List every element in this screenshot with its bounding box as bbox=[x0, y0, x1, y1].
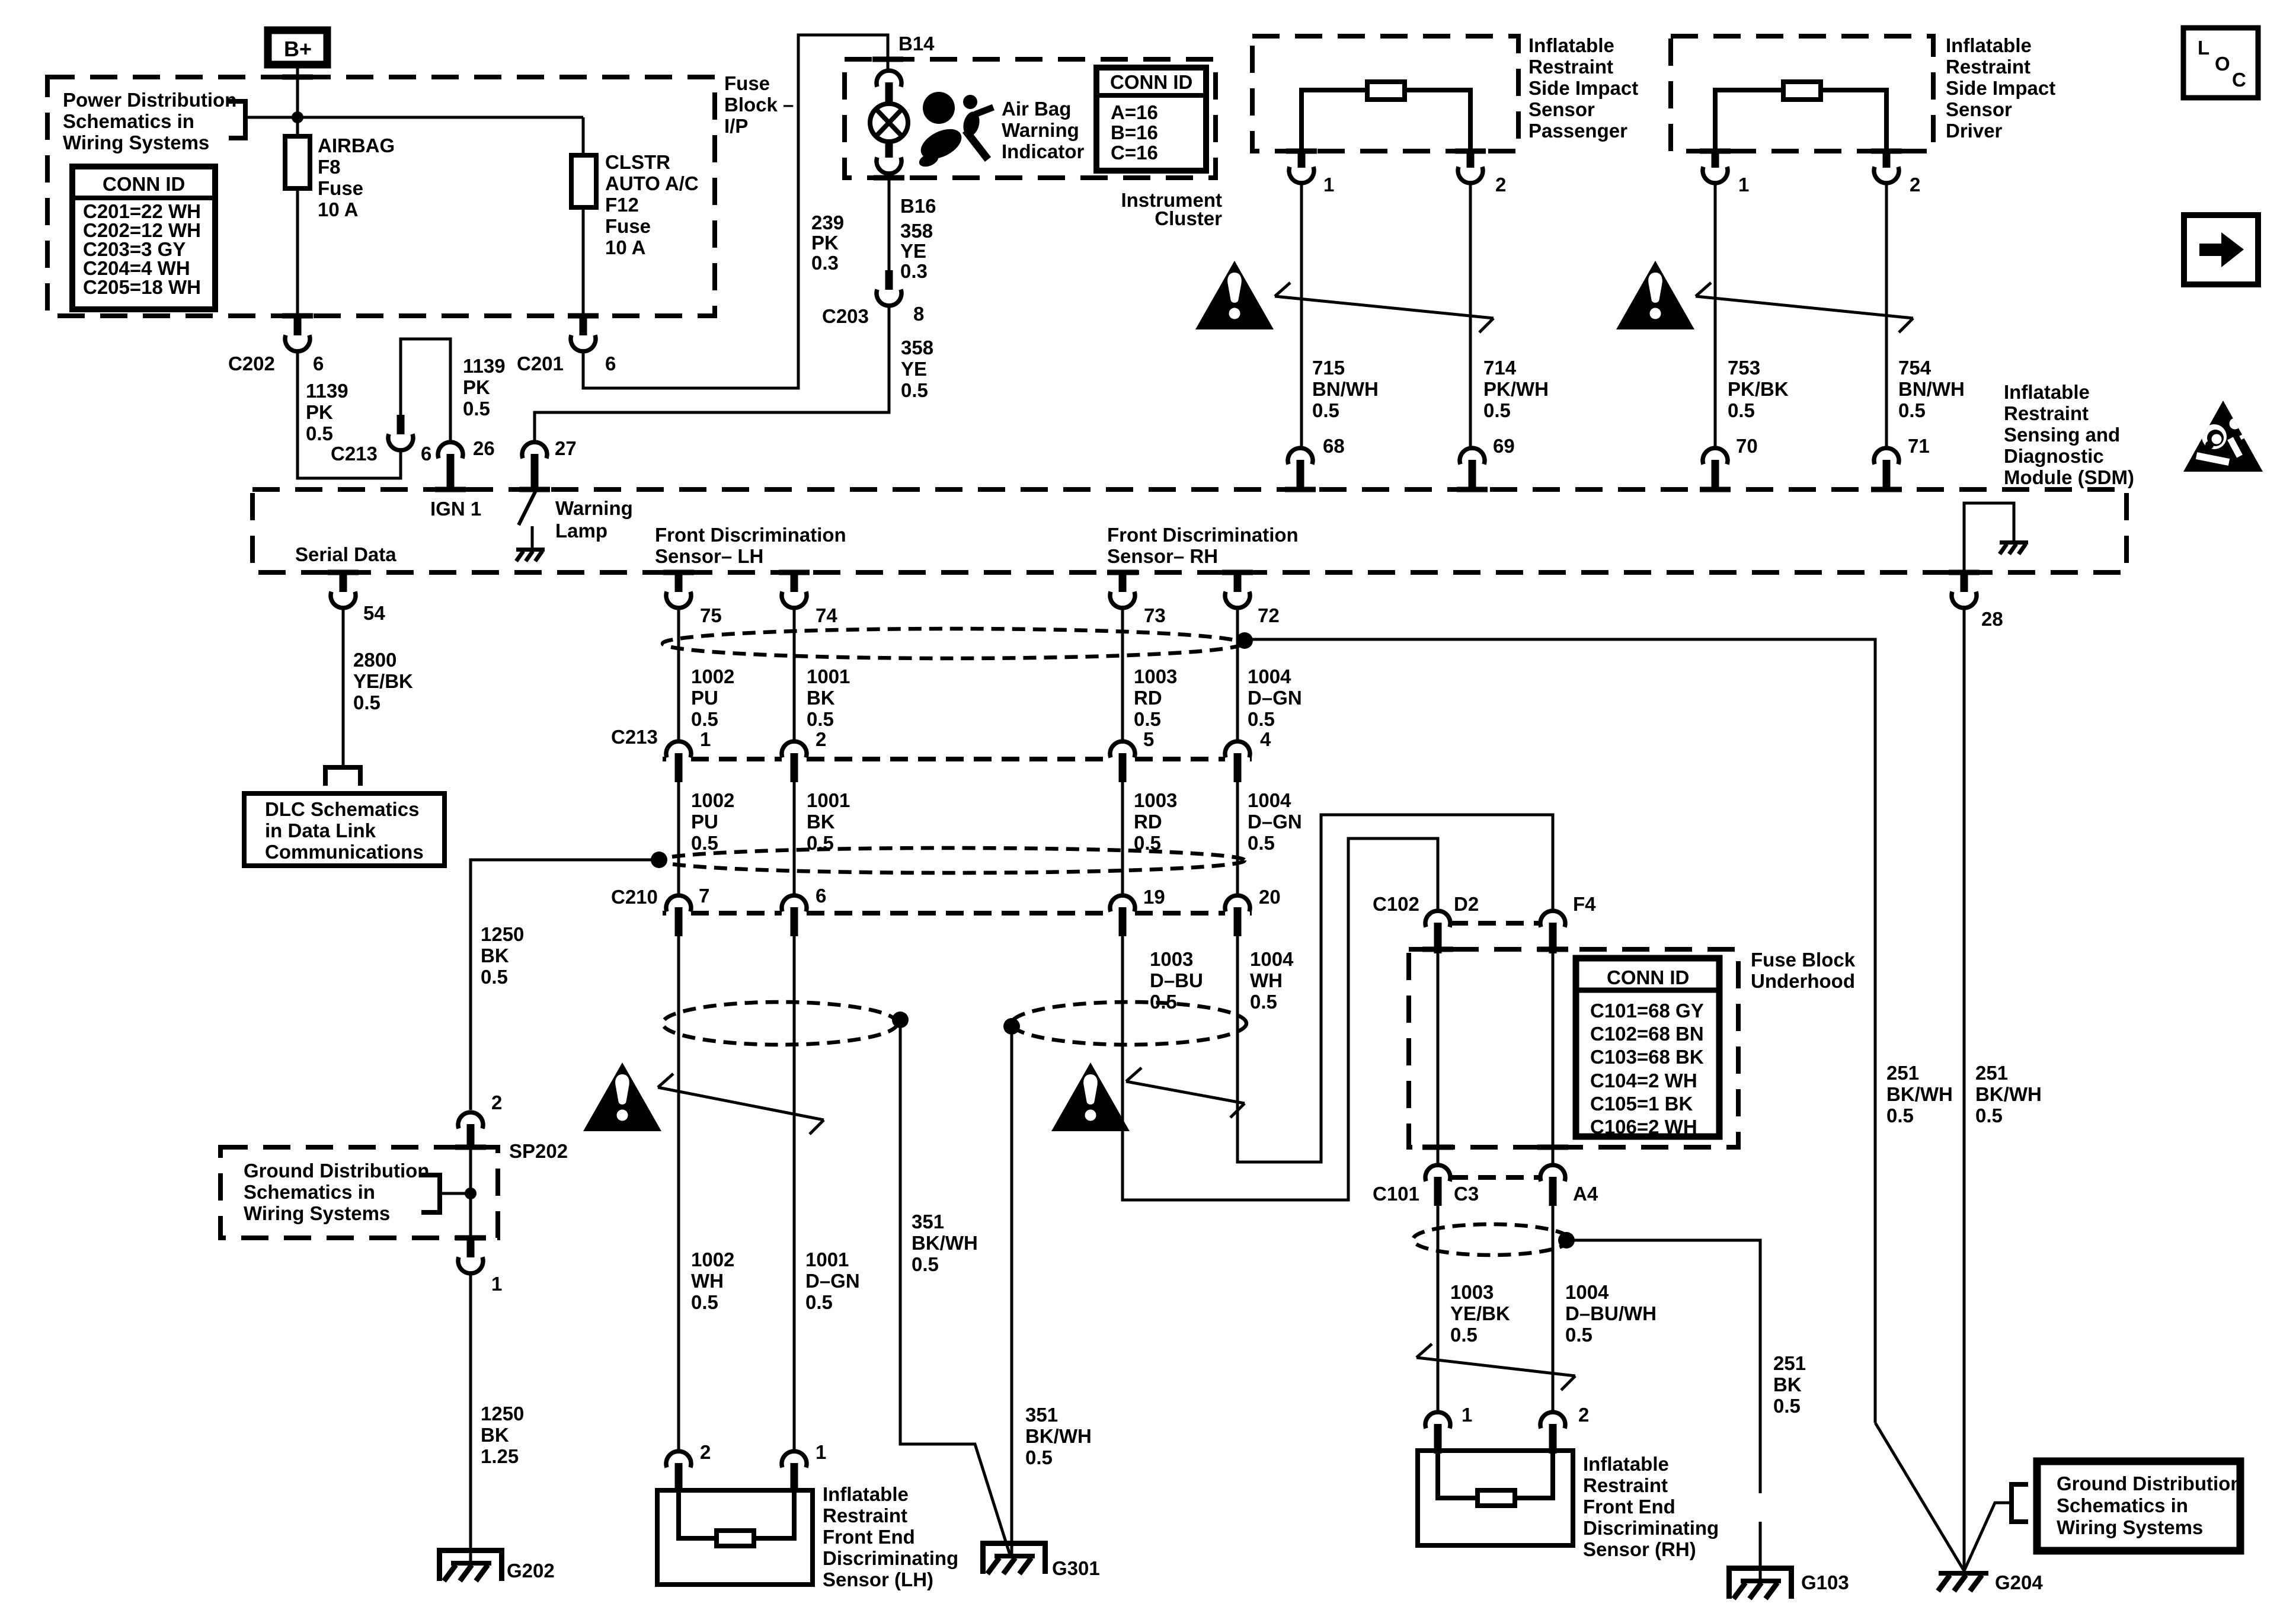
svg-text:239: 239 bbox=[811, 212, 844, 233]
label 251 BK 0.5 bbox=[1773, 1352, 1806, 1417]
svg-text:Side Impact: Side Impact bbox=[1946, 77, 2055, 99]
svg-text:C105=1 BK: C105=1 BK bbox=[1590, 1093, 1693, 1115]
connector row C210 bbox=[611, 885, 1281, 908]
CONN ID table (underhood) bbox=[1576, 958, 1719, 1138]
svg-text:74: 74 bbox=[816, 604, 837, 626]
shield drain node row 3 left bbox=[892, 1012, 909, 1028]
svg-text:0.5: 0.5 bbox=[1248, 832, 1275, 854]
svg-text:CONN ID: CONN ID bbox=[1110, 71, 1192, 93]
C210 pin 19 clip bbox=[1110, 895, 1135, 936]
shield drain wire 351 BK/WH (right) bbox=[1011, 1026, 1013, 1557]
svg-text:1001: 1001 bbox=[807, 665, 850, 687]
svg-text:0.5: 0.5 bbox=[1773, 1395, 1801, 1417]
C213 pin 2 clip bbox=[782, 741, 807, 782]
svg-text:O: O bbox=[2215, 53, 2230, 75]
wire 2800 YE/BK from pin 54 bbox=[342, 608, 345, 766]
svg-text:Indicator: Indicator bbox=[1002, 140, 1085, 162]
svg-text:BK: BK bbox=[807, 811, 835, 833]
svg-text:351: 351 bbox=[1025, 1404, 1058, 1426]
C102 pin F4 clip bbox=[1540, 911, 1565, 953]
passenger sensor internal resistor bbox=[1302, 82, 1470, 151]
leader slash through wires 1003/1004 bbox=[1126, 1068, 1245, 1118]
label 358 YE 0.5 bbox=[901, 337, 933, 401]
svg-text:72: 72 bbox=[1258, 604, 1280, 626]
note: Instrument Cluster bbox=[1121, 189, 1222, 229]
internal mini ground (pin 28) bbox=[2000, 540, 2028, 554]
svg-text:BK/WH: BK/WH bbox=[912, 1232, 978, 1254]
labels 1002 WH 0.5 / 1001 D-GN 0.5 (lower) bbox=[691, 1249, 734, 1313]
svg-text:1139: 1139 bbox=[306, 380, 348, 402]
svg-text:0.5: 0.5 bbox=[807, 832, 834, 854]
wire loop C213-6 up and over to SDM pin 26 bbox=[401, 339, 450, 441]
svg-text:DLC Schematics: DLC Schematics bbox=[265, 798, 419, 820]
svg-text:0.5: 0.5 bbox=[1134, 832, 1161, 854]
svg-text:YE: YE bbox=[900, 240, 926, 262]
svg-text:0.5: 0.5 bbox=[463, 398, 490, 420]
passenger sensor dashed box bbox=[1252, 36, 1518, 151]
svg-text:0.5: 0.5 bbox=[912, 1253, 939, 1275]
fuse F12 CLSTR AUTO A/C bbox=[571, 151, 699, 258]
leader slash through wires 1002/1001 bbox=[658, 1074, 824, 1134]
C101 pin A4 clip bbox=[1540, 1165, 1565, 1206]
svg-text:4: 4 bbox=[1260, 728, 1271, 750]
svg-text:1250: 1250 bbox=[481, 923, 524, 945]
svg-text:1: 1 bbox=[816, 1441, 826, 1463]
svg-text:2: 2 bbox=[491, 1092, 502, 1113]
SDM pin 72 clip bbox=[1225, 572, 1280, 626]
svg-text:1139: 1139 bbox=[463, 355, 506, 377]
svg-text:PK/BK: PK/BK bbox=[1728, 378, 1789, 400]
svg-text:C202: C202 bbox=[228, 353, 275, 375]
svg-text:2: 2 bbox=[1910, 174, 1920, 196]
SP202 splice pin 2 clip bbox=[458, 1092, 502, 1148]
svg-text:1250: 1250 bbox=[481, 1403, 524, 1425]
C101 dashed line bbox=[1450, 1175, 1540, 1180]
svg-text:0.5: 0.5 bbox=[1025, 1446, 1053, 1468]
SDM pin 54 clip bbox=[331, 572, 385, 624]
svg-text:YE/BK: YE/BK bbox=[353, 670, 413, 692]
shield drain node row 3 right bbox=[1003, 1018, 1020, 1035]
C102 pin D2 clip bbox=[1425, 911, 1450, 953]
svg-text:1.25: 1.25 bbox=[481, 1445, 519, 1467]
svg-text:251: 251 bbox=[1975, 1062, 2008, 1084]
svg-text:1004: 1004 bbox=[1565, 1281, 1609, 1303]
wire bracket to splice node bbox=[440, 1192, 471, 1195]
warning triangle (RH front wires) bbox=[1051, 1062, 1130, 1131]
fuse F8 AIRBAG bbox=[285, 135, 395, 220]
driver sensor pin 2 clip bbox=[1874, 150, 1920, 196]
svg-text:0.5: 0.5 bbox=[691, 832, 718, 854]
label 1139 PK 0.5 (left) bbox=[306, 380, 348, 444]
C210 pin 20 clip bbox=[1225, 895, 1250, 936]
note: Inflatable Restraint Side Impact Sensor Driver bbox=[1946, 34, 2055, 142]
svg-text:SP202: SP202 bbox=[509, 1140, 568, 1162]
fuse block underhood dashed box bbox=[1409, 949, 1738, 1147]
warning lamp switch contact to ground bbox=[531, 526, 534, 548]
wire 753 PK/BK bbox=[1714, 183, 1717, 448]
svg-text:Schematics in: Schematics in bbox=[2057, 1494, 2188, 1516]
svg-text:Underhood: Underhood bbox=[1751, 970, 1855, 992]
wire 714 PK/WH bbox=[1469, 183, 1472, 448]
C213 pin 1 clip bbox=[666, 741, 691, 782]
svg-text:Sensor: Sensor bbox=[1946, 98, 2012, 120]
svg-text:Sensing and: Sensing and bbox=[2004, 424, 2120, 446]
svg-text:2: 2 bbox=[700, 1441, 711, 1463]
shield ellipse row 2 bbox=[659, 848, 1245, 873]
RH sensor internal squib bbox=[1438, 1451, 1553, 1506]
label 1250 BK 0.5 bbox=[481, 923, 524, 988]
svg-text:Sensor– LH: Sensor– LH bbox=[655, 545, 763, 567]
svg-text:0.5: 0.5 bbox=[1975, 1105, 2003, 1126]
note: Ground Distribution Schematics in Wiring Systems (G204) bbox=[2037, 1461, 2242, 1551]
svg-text:71: 71 bbox=[1908, 435, 1930, 457]
svg-text:Passenger: Passenger bbox=[1528, 120, 1627, 142]
wire below F8 to box edge bbox=[296, 188, 299, 316]
svg-text:7: 7 bbox=[699, 885, 709, 907]
connector row C101 bbox=[1373, 1183, 1598, 1205]
svg-text:D2: D2 bbox=[1454, 893, 1479, 915]
splice node SP202 bbox=[465, 1188, 477, 1199]
LH sensor internal squib bbox=[679, 1490, 794, 1546]
LH sensor pin 1 clip bbox=[782, 1441, 826, 1493]
svg-text:BK: BK bbox=[481, 945, 509, 966]
svg-text:0.5: 0.5 bbox=[481, 966, 508, 988]
ground G204 bbox=[1938, 1571, 2043, 1593]
svg-text:1: 1 bbox=[1738, 174, 1749, 196]
SDM airbag warning triangle icon bbox=[2183, 401, 2263, 472]
wire 1002 PU (pin 75 to C213-1) bbox=[677, 608, 680, 741]
bracket to ground distribution note bbox=[421, 1175, 440, 1212]
RH sensor pin 1 clip bbox=[1425, 1404, 1472, 1454]
driver sensor internal resistor bbox=[1715, 82, 1886, 151]
air bag icon (head + airbag) bbox=[916, 92, 993, 169]
svg-text:WH: WH bbox=[1250, 969, 1283, 991]
svg-text:6: 6 bbox=[421, 443, 431, 465]
svg-text:1004: 1004 bbox=[1248, 789, 1291, 811]
svg-text:G301: G301 bbox=[1052, 1557, 1100, 1579]
C210 pin 7 clip bbox=[666, 895, 691, 936]
svg-text:Inflatable: Inflatable bbox=[2004, 381, 2090, 403]
svg-text:Front Discrimination: Front Discrimination bbox=[1107, 524, 1299, 546]
svg-text:F4: F4 bbox=[1573, 893, 1596, 915]
labels 1002 PU 0.5 / 1001 BK 0.5 / 1003 RD 0.5 / 1004 D-GN 0.5 (second row) bbox=[691, 789, 734, 854]
svg-text:6: 6 bbox=[816, 885, 826, 907]
SDM pin 75 clip bbox=[666, 572, 722, 626]
svg-text:G204: G204 bbox=[1995, 1571, 2043, 1593]
passenger sensor pin 2 clip bbox=[1458, 150, 1506, 196]
svg-text:251: 251 bbox=[1886, 1062, 1919, 1084]
svg-text:PK/WH: PK/WH bbox=[1483, 378, 1549, 400]
svg-text:C103=68 BK: C103=68 BK bbox=[1590, 1046, 1704, 1068]
svg-text:I/P: I/P bbox=[724, 115, 748, 137]
svg-text:Block –: Block – bbox=[724, 94, 794, 116]
svg-text:A4: A4 bbox=[1573, 1183, 1598, 1205]
wire 358 YE 0.3 below cluster bbox=[888, 174, 891, 270]
svg-text:0.5: 0.5 bbox=[805, 1291, 833, 1313]
note: Ground Distribution Schematics in Wiring Systems (SP202) bbox=[244, 1160, 429, 1224]
svg-text:BK/WH: BK/WH bbox=[1975, 1083, 2042, 1105]
svg-text:28: 28 bbox=[1981, 608, 2003, 630]
svg-text:Cluster: Cluster bbox=[1155, 207, 1222, 229]
svg-text:Front Discrimination: Front Discrimination bbox=[655, 524, 846, 546]
svg-text:1004: 1004 bbox=[1248, 665, 1291, 687]
svg-text:715: 715 bbox=[1312, 357, 1345, 379]
leader slash through wires 753/754 bbox=[1696, 283, 1913, 332]
svg-text:26: 26 bbox=[473, 437, 495, 459]
svg-text:1: 1 bbox=[1462, 1404, 1472, 1426]
svg-text:C203: C203 bbox=[822, 305, 869, 327]
svg-text:73: 73 bbox=[1144, 604, 1166, 626]
C210 dashed line bbox=[663, 911, 1252, 916]
svg-text:BN/WH: BN/WH bbox=[1898, 378, 1965, 400]
label 715 BN/WH 0.5 bbox=[1312, 357, 1379, 421]
svg-text:0.5: 0.5 bbox=[1134, 708, 1161, 730]
wire 715 BN/WH bbox=[1300, 183, 1303, 448]
SDM dashed box bbox=[252, 489, 2126, 572]
labels 1003 YE/BK 0.5 / 1004 D-BU/WH 0.5 bbox=[1450, 1281, 1510, 1346]
svg-text:1002: 1002 bbox=[691, 665, 734, 687]
svg-text:B16: B16 bbox=[900, 195, 936, 217]
svg-text:Wiring Systems: Wiring Systems bbox=[244, 1202, 390, 1224]
svg-text:Serial Data: Serial Data bbox=[295, 543, 396, 565]
svg-text:1: 1 bbox=[491, 1273, 502, 1295]
svg-text:Ground Distribution: Ground Distribution bbox=[244, 1160, 429, 1182]
svg-text:Wiring Systems: Wiring Systems bbox=[2057, 1516, 2203, 1538]
svg-text:C201: C201 bbox=[517, 353, 564, 375]
LH sensor pin 2 clip bbox=[666, 1441, 711, 1493]
SDM pin 71 clip bbox=[1874, 435, 1930, 489]
svg-text:CONN ID: CONN ID bbox=[103, 173, 185, 195]
svg-text:1002: 1002 bbox=[691, 1249, 734, 1270]
svg-text:in Data Link: in Data Link bbox=[265, 820, 376, 841]
svg-text:5: 5 bbox=[1143, 728, 1154, 750]
RH sensor pin 2 clip bbox=[1540, 1404, 1589, 1454]
SDM pin 69 clip bbox=[1460, 435, 1515, 489]
ground G103 bbox=[1726, 1566, 1849, 1599]
svg-text:Warning: Warning bbox=[1002, 119, 1079, 141]
SDM pin 28 internal ground trace bbox=[1964, 503, 2014, 572]
svg-text:Diagnostic: Diagnostic bbox=[2004, 445, 2104, 467]
svg-text:1: 1 bbox=[1323, 174, 1334, 196]
label 754 BN/WH 0.5 bbox=[1898, 357, 1965, 421]
svg-text:Inflatable: Inflatable bbox=[823, 1483, 909, 1505]
passenger sensor pin 1 clip bbox=[1289, 150, 1334, 196]
svg-text:Restraint: Restraint bbox=[1583, 1474, 1668, 1496]
label 351 BK/WH 0.5 (upper) bbox=[912, 1211, 978, 1275]
bracket to ground distribution note (G204) bbox=[2012, 1484, 2028, 1522]
wire D2 to C3 inside fuse block bbox=[1437, 952, 1440, 1164]
svg-text:BN/WH: BN/WH bbox=[1312, 378, 1379, 400]
svg-text:A=16: A=16 bbox=[1111, 101, 1158, 123]
svg-text:10 A: 10 A bbox=[605, 236, 645, 258]
svg-text:1003: 1003 bbox=[1134, 789, 1177, 811]
svg-text:BK: BK bbox=[807, 687, 835, 709]
svg-text:CLSTR: CLSTR bbox=[605, 151, 670, 173]
label 2800 YE/BK 0.5 bbox=[353, 649, 413, 713]
svg-text:69: 69 bbox=[1493, 435, 1515, 457]
wire B+ vertical bbox=[296, 68, 299, 136]
bracket to Power Distribution note bbox=[229, 101, 245, 138]
wires C213 to C210 bbox=[677, 782, 680, 895]
label 714 PK/WH 0.5 bbox=[1483, 357, 1549, 421]
warning triangle (LH front wires) bbox=[583, 1062, 661, 1131]
svg-text:BK/WH: BK/WH bbox=[1886, 1083, 1953, 1105]
label 351 BK/WH 0.5 (lower) bbox=[1025, 1404, 1092, 1468]
svg-text:C101: C101 bbox=[1373, 1183, 1419, 1205]
svg-text:0.5: 0.5 bbox=[1150, 991, 1177, 1013]
arrow reference box bbox=[2184, 215, 2258, 284]
shield ellipse row 1 bbox=[663, 629, 1242, 658]
wire 1003 YE/BK (C3 to RH sensor 1) bbox=[1437, 1206, 1440, 1411]
svg-text:RD: RD bbox=[1134, 811, 1162, 833]
SDM pin 73 clip bbox=[1110, 572, 1166, 626]
svg-text:Fuse: Fuse bbox=[318, 177, 363, 199]
SDM pin 26 clip bbox=[438, 437, 495, 489]
svg-text:C205=18 WH: C205=18 WH bbox=[83, 276, 201, 298]
svg-text:2: 2 bbox=[1495, 174, 1506, 196]
svg-text:B14: B14 bbox=[898, 33, 935, 55]
svg-text:753: 753 bbox=[1728, 357, 1760, 379]
CONN ID table (body connectors) bbox=[72, 167, 215, 309]
svg-text:Schematics in: Schematics in bbox=[63, 110, 194, 132]
svg-text:BK: BK bbox=[1773, 1374, 1802, 1395]
driver sensor dashed box bbox=[1671, 36, 1933, 151]
dash ticks at wire/dashed-edge crossings bbox=[282, 57, 1980, 1241]
svg-text:Power Distribution: Power Distribution bbox=[63, 89, 236, 111]
svg-text:D–GN: D–GN bbox=[1248, 687, 1302, 709]
shield drain wire 251 BK to G103 bbox=[1566, 1240, 1760, 1580]
fuse block I/P dashed box bbox=[47, 77, 715, 316]
svg-text:1003: 1003 bbox=[1134, 665, 1177, 687]
svg-text:0.5: 0.5 bbox=[353, 692, 380, 713]
wire below F12 to box edge bbox=[582, 207, 585, 316]
label 239 PK 0.3 bbox=[811, 212, 844, 274]
svg-text:70: 70 bbox=[1736, 435, 1758, 457]
svg-text:PK: PK bbox=[306, 401, 333, 423]
connector C201 pin 6 bbox=[517, 316, 616, 375]
air bag warning indicator bulb bbox=[870, 104, 908, 142]
C101 pin C3 clip bbox=[1425, 1165, 1450, 1206]
svg-text:Fuse: Fuse bbox=[724, 72, 770, 94]
svg-text:75: 75 bbox=[700, 604, 722, 626]
svg-text:C104=2 WH: C104=2 WH bbox=[1590, 1070, 1697, 1092]
svg-text:C213: C213 bbox=[331, 443, 378, 465]
svg-text:Side Impact: Side Impact bbox=[1528, 77, 1638, 99]
svg-text:1004: 1004 bbox=[1250, 948, 1294, 970]
SDM pin 27 clip bbox=[522, 437, 577, 489]
SDM pin 68 clip bbox=[1288, 435, 1345, 489]
connector clip B16 bbox=[877, 140, 901, 174]
label 1250 BK 1.25 bbox=[481, 1403, 524, 1467]
node at B+ wire junction bbox=[292, 111, 303, 123]
svg-text:10 A: 10 A bbox=[318, 199, 358, 220]
svg-text:0.5: 0.5 bbox=[1898, 399, 1926, 421]
note: Fuse Block - I/P label bbox=[724, 72, 794, 137]
svg-text:YE: YE bbox=[901, 358, 927, 380]
wire 1004 WH (C210-20 down to F4 riser) bbox=[1237, 815, 1553, 1162]
svg-text:0.5: 0.5 bbox=[1886, 1105, 1914, 1126]
leader slash through wires 715/714 bbox=[1275, 283, 1494, 332]
svg-text:1001: 1001 bbox=[805, 1249, 849, 1270]
svg-text:Inflatable: Inflatable bbox=[1583, 1453, 1669, 1475]
internal mini ground (warning lamp) bbox=[516, 548, 545, 561]
connector C213 pin 6 (in-line) bbox=[331, 415, 431, 465]
note: Inflatable Restraint Front End Discriminating Sensor (LH) bbox=[823, 1483, 958, 1590]
svg-text:D–BU: D–BU bbox=[1150, 969, 1203, 991]
SDM pin 70 clip bbox=[1703, 435, 1758, 489]
svg-text:0.5: 0.5 bbox=[306, 422, 333, 444]
svg-text:C102: C102 bbox=[1373, 893, 1419, 915]
svg-text:0.5: 0.5 bbox=[1565, 1324, 1593, 1346]
wire 251 BK/WH diagonal to G204 bbox=[1875, 1423, 1964, 1571]
C213 pin 5 clip bbox=[1110, 741, 1135, 782]
svg-text:C3: C3 bbox=[1454, 1183, 1479, 1205]
svg-text:Restraint: Restraint bbox=[823, 1505, 907, 1526]
svg-text:D–GN: D–GN bbox=[1248, 811, 1302, 833]
svg-text:AIRBAG: AIRBAG bbox=[318, 135, 395, 156]
svg-text:AUTO A/C: AUTO A/C bbox=[605, 172, 699, 194]
svg-text:Fuse: Fuse bbox=[605, 215, 651, 237]
connector row C102 bbox=[1373, 893, 1596, 915]
shield ellipse row 3 left bbox=[663, 1002, 897, 1045]
shield drain node row 4 bbox=[1558, 1232, 1575, 1249]
svg-text:27: 27 bbox=[555, 437, 577, 459]
svg-text:IGN 1: IGN 1 bbox=[430, 498, 481, 520]
shield drain wire row 1 to right bbox=[1245, 639, 1875, 1423]
svg-text:C213: C213 bbox=[611, 726, 658, 748]
svg-text:Fuse Block: Fuse Block bbox=[1751, 949, 1856, 971]
svg-text:Air Bag: Air Bag bbox=[1002, 98, 1071, 120]
svg-text:2: 2 bbox=[1578, 1404, 1589, 1426]
svg-text:0.5: 0.5 bbox=[901, 379, 928, 401]
note: Fuse Block Underhood bbox=[1751, 949, 1856, 992]
wire 754 BN/WH bbox=[1885, 183, 1888, 448]
wire 1139 PK from C202 bbox=[298, 351, 401, 478]
svg-text:BK: BK bbox=[481, 1424, 509, 1446]
svg-text:6: 6 bbox=[313, 353, 324, 375]
svg-text:0.5: 0.5 bbox=[691, 708, 718, 730]
svg-text:F12: F12 bbox=[605, 194, 639, 216]
note: Inflatable Restraint Sensing and Diagnostic Module (SDM) bbox=[2004, 381, 2134, 488]
svg-text:Discriminating: Discriminating bbox=[823, 1547, 958, 1569]
wire 1003 D-BU (C210-19 down to D2 riser) bbox=[1123, 838, 1438, 1200]
svg-text:YE/BK: YE/BK bbox=[1450, 1302, 1510, 1324]
svg-text:251: 251 bbox=[1773, 1352, 1806, 1374]
svg-text:0.5: 0.5 bbox=[1450, 1324, 1478, 1346]
C213 dashed line bbox=[663, 757, 1252, 761]
connector C202 pin 6 bbox=[228, 316, 324, 375]
wire 1250 BK 1.25 to G202 bbox=[469, 1273, 472, 1564]
instrument cluster dashed box bbox=[845, 59, 1216, 178]
labels B16 / 358 YE 0.3 bbox=[900, 195, 936, 282]
svg-text:358: 358 bbox=[900, 220, 933, 242]
svg-text:0.5: 0.5 bbox=[1483, 399, 1511, 421]
svg-text:0.5: 0.5 bbox=[1728, 399, 1755, 421]
svg-text:PU: PU bbox=[691, 687, 718, 709]
svg-text:0.3: 0.3 bbox=[811, 252, 839, 274]
label 1139 PK 0.5 (right) bbox=[463, 355, 506, 420]
svg-text:D–BU/WH: D–BU/WH bbox=[1565, 1302, 1657, 1324]
svg-text:Discriminating: Discriminating bbox=[1583, 1517, 1719, 1539]
shield ellipse row 3 right bbox=[1012, 1002, 1246, 1045]
warning triangle (passenger) bbox=[1195, 261, 1274, 329]
SP202 dashed box bbox=[220, 1147, 498, 1238]
svg-text:54: 54 bbox=[363, 602, 385, 624]
svg-text:Restraint: Restraint bbox=[1946, 56, 2030, 78]
svg-text:Inflatable: Inflatable bbox=[1946, 34, 2032, 56]
svg-text:Driver: Driver bbox=[1946, 120, 2003, 142]
wire inside SP202 bbox=[469, 1147, 472, 1238]
